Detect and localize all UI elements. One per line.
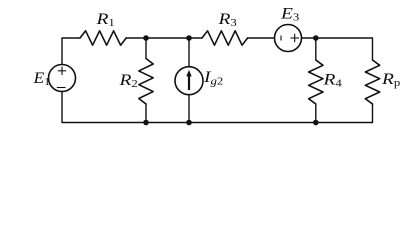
wire Ig2 branch top (188, 38, 190, 67)
voltage source E1 (49, 65, 76, 92)
wire bottom middle (146, 122, 373, 124)
resistor R3 (202, 31, 248, 45)
wire top middle segment (126, 37, 202, 39)
Ig2 arrow (186, 70, 191, 90)
wire R4 branch bottom (315, 104, 317, 123)
wire R3 to E3 (248, 37, 275, 39)
resistor R1 (80, 31, 126, 45)
resistor Rp (365, 60, 379, 104)
current source Ig2 (175, 67, 203, 95)
junction node Ig2 bottom (186, 120, 192, 126)
wire top-left segment (62, 38, 80, 65)
wire Rp bottom (372, 104, 374, 123)
junction node R4 top (313, 35, 319, 41)
wire E3 to top-right corner (302, 38, 373, 60)
voltage source E3 (275, 25, 302, 52)
resistor R4 (309, 60, 323, 104)
junction node R2 top (143, 35, 149, 41)
junction node R2 bottom (143, 120, 149, 126)
wire left bottom segment (62, 92, 146, 123)
E1 plus sign (57, 34, 299, 88)
wire R2 branch bottom (145, 104, 147, 123)
resistor R2 (139, 59, 153, 105)
E3 minus bar (280, 36, 282, 41)
wire R4 branch top (315, 38, 317, 60)
junction node Ig2 top (186, 35, 192, 41)
E1 minus sign (57, 87, 66, 89)
wire R2 branch top (145, 38, 147, 59)
junction node R4 bottom (313, 120, 319, 126)
wire Ig2 branch bottom (188, 95, 190, 123)
E3 plus sign (291, 37, 299, 39)
